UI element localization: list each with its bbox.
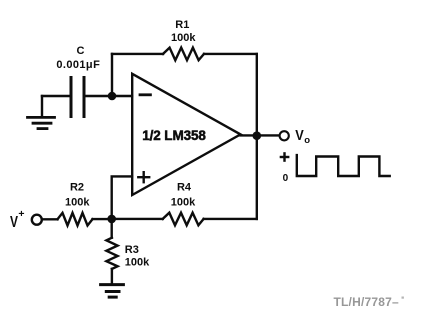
node A (inverting input junction) bbox=[108, 92, 117, 101]
svg-text:0: 0 bbox=[283, 173, 289, 184]
ground (R3) bbox=[101, 285, 124, 298]
wire V+ terminal to R2 bbox=[42, 218, 58, 220]
resistor R2 bbox=[58, 213, 93, 226]
op-amp inverting pin minus symbol bbox=[140, 93, 150, 96]
document number TL/H/7787 bbox=[334, 295, 404, 309]
svg-text:0.001μF: 0.001μF bbox=[56, 59, 100, 71]
node C (non-inverting junction) bbox=[107, 215, 116, 224]
R3 label bbox=[125, 244, 139, 256]
svg-text:R4: R4 bbox=[177, 182, 192, 194]
C value label 0.001uF bbox=[56, 59, 100, 71]
terminal V+ open circle bbox=[32, 215, 42, 225]
terminal Vo open circle bbox=[280, 131, 289, 140]
svg-text:TL/H/7787–: TL/H/7787– bbox=[334, 295, 399, 309]
op-amp label 1/2 LM358 bbox=[142, 128, 206, 143]
wire ground to capacitor left plate bbox=[42, 95, 70, 97]
svg-text:R2: R2 bbox=[70, 182, 84, 194]
square wave output waveform bbox=[297, 155, 390, 176]
op-amp non-inverting pin plus symbol bbox=[138, 172, 149, 182]
wire node C to R4 bbox=[112, 218, 163, 220]
svg-text:100k: 100k bbox=[171, 197, 196, 209]
svg-text:V: V bbox=[295, 127, 304, 144]
wire op-amp output bbox=[241, 134, 280, 136]
R3 value label 100k bbox=[125, 257, 150, 269]
svg-text:100k: 100k bbox=[171, 32, 196, 44]
capacitor C bbox=[71, 78, 84, 117]
op-amp U1 1/2 LM358 bbox=[132, 74, 240, 195]
svg-text:R3: R3 bbox=[125, 244, 139, 256]
wire top feedback rail right segment bbox=[204, 53, 257, 55]
waveform zero label bbox=[283, 173, 289, 184]
wire R3 to ground bbox=[111, 269, 113, 283]
R2 label bbox=[70, 182, 84, 194]
wire top feedback rail left segment bbox=[112, 53, 163, 55]
wire non-inverting input bbox=[112, 176, 132, 219]
svg-text:C: C bbox=[77, 45, 85, 57]
svg-text:V: V bbox=[10, 214, 19, 231]
wire inverting input bbox=[112, 95, 132, 97]
resistor R4 bbox=[163, 213, 204, 226]
C label bbox=[77, 45, 85, 57]
R4 label bbox=[177, 182, 192, 194]
R2 value label 100k bbox=[65, 196, 90, 208]
wire node C down to R3 bbox=[110, 219, 112, 238]
R1 value label 100k bbox=[171, 32, 196, 44]
wire left feedback vertical bbox=[111, 54, 113, 96]
resistor R3 bbox=[106, 238, 117, 269]
wire capacitor right plate to inverting node bbox=[86, 95, 113, 97]
wire right feedback vertical bbox=[256, 54, 258, 219]
V+ label bbox=[10, 208, 25, 231]
svg-text:R1: R1 bbox=[175, 19, 189, 31]
svg-text:100k: 100k bbox=[65, 196, 90, 208]
R1 label bbox=[175, 19, 189, 31]
svg-text:o: o bbox=[304, 135, 310, 146]
wire R2 to node C bbox=[93, 218, 112, 220]
R4 value label 100k bbox=[171, 197, 196, 209]
waveform plus symbol bbox=[281, 153, 288, 160]
Vo label bbox=[295, 127, 310, 146]
svg-text:100k: 100k bbox=[125, 257, 150, 269]
wire R4 to right vertical bbox=[204, 218, 257, 220]
ground (capacitor) bbox=[28, 96, 55, 129]
node B (output junction) bbox=[252, 131, 261, 140]
resistor R1 bbox=[163, 48, 204, 61]
svg-text:+: + bbox=[18, 208, 24, 220]
svg-text:1/2 LM358: 1/2 LM358 bbox=[142, 128, 206, 143]
